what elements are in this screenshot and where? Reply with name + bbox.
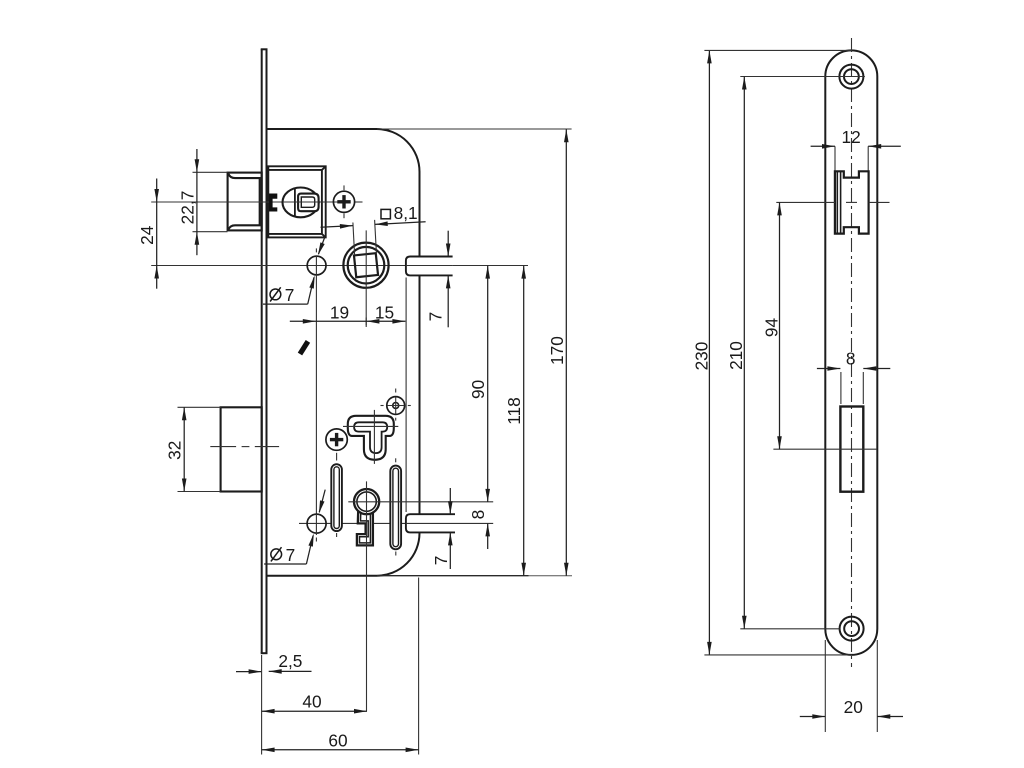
latch case box [268, 166, 325, 237]
latch axis line [151, 201, 350, 203]
210 extension line (bottom) [740, 628, 839, 630]
latch cam (circle with chord) [283, 188, 319, 218]
bottom tab (key guide) [406, 514, 455, 532]
svg-text:94: 94 [762, 318, 782, 338]
dimension 94 [779, 202, 781, 449]
pivot point U3 (circled dot, upper) [387, 397, 405, 415]
follower axis line y=265.5 [151, 265, 528, 267]
dimension 20 [824, 640, 826, 732]
dimension 2,5 [236, 671, 262, 673]
svg-text:170: 170 [547, 336, 567, 365]
leader into Ø7 bottom hole [319, 490, 325, 513]
bottom screw hole [840, 617, 864, 641]
latch bolt head (through faceplate) [228, 173, 262, 231]
spring pin (black slanted mark) [298, 340, 310, 355]
svg-text:7: 7 [286, 545, 296, 565]
svg-text:24: 24 [137, 225, 157, 245]
svg-text:20: 20 [844, 697, 863, 717]
spring clip (black C bracket) [269, 194, 277, 212]
dimension 19 / 15 [365, 318, 367, 328]
slot axis line [773, 448, 877, 450]
guide slot (left) [331, 464, 342, 531]
extension line plate bottom [704, 654, 852, 656]
svg-text:60: 60 [328, 731, 347, 751]
svg-text:90: 90 [468, 380, 488, 399]
dimension 230 [708, 50, 710, 655]
dimension 7 (bottom) [449, 488, 451, 514]
svg-text:2,5: 2,5 [278, 651, 302, 671]
dimension 90 [487, 266, 489, 502]
dimension 170 [565, 129, 567, 576]
dimension 60 [262, 749, 419, 751]
svg-text:7: 7 [431, 556, 451, 566]
faceplate (edge view, 2.5 thick) [261, 49, 268, 653]
svg-text:210: 210 [726, 341, 746, 370]
dimension 32 [178, 406, 221, 408]
label Ø7 (top) [270, 289, 281, 300]
guide slot (right) [390, 466, 401, 550]
svg-text:19: 19 [330, 302, 349, 322]
svg-text:15: 15 [375, 302, 394, 322]
wire: top edge extension to 170 dim [377, 128, 572, 130]
dimension 12 [834, 146, 836, 170]
wire: vertical line linking the two Ø7 holes / 19-dim extension [315, 256, 317, 515]
latch center mark [846, 201, 857, 203]
top tab (latch follower stop) [406, 257, 453, 276]
dimension 118 [523, 266, 525, 576]
leader into Ø7 top hole from box corner [319, 237, 326, 255]
screw U2 (phillips, middle-left) [326, 429, 347, 450]
svg-text:7: 7 [426, 312, 446, 322]
svg-text:8: 8 [468, 510, 488, 520]
wire: key-bit axis line y=523.4 [299, 522, 493, 524]
keyhole [357, 505, 373, 545]
dimension 40 [262, 710, 367, 712]
wire: vertical extension line x=406 between tabs [405, 278, 407, 513]
follower hub with square hole 8.1 [343, 243, 388, 288]
latch insert (front view) [835, 171, 869, 233]
T-shaped slot [348, 416, 394, 460]
210 extension line (top) [740, 76, 865, 78]
svg-text:7: 7 [285, 285, 295, 305]
svg-text:40: 40 [302, 692, 321, 712]
hole (Ø7, top) [307, 256, 326, 275]
plate vertical centerline (dash-dot) [851, 38, 853, 667]
extension lines bottom [261, 655, 263, 755]
svg-text:230: 230 [691, 342, 711, 371]
svg-text:12: 12 [841, 127, 860, 147]
follower vertical centerline [365, 230, 367, 325]
wire: bottom edge extension to 118/170 dims [377, 575, 529, 577]
extension line plate top [704, 49, 851, 51]
dimension 24 [156, 179, 158, 203]
cam follower bead [298, 194, 319, 212]
svg-text:22,7: 22,7 [177, 191, 197, 225]
label Ø7 (bottom) [271, 549, 282, 560]
deadbolt centerline (dash-dot) [210, 446, 279, 448]
faceplate plate outline (stadium) [825, 50, 877, 655]
dimension 8 (right view) [840, 372, 842, 404]
dimension 8 (left view) [487, 523, 489, 549]
dimension 7 (top) [447, 231, 449, 257]
latch axis line (94 extension) [776, 201, 835, 203]
svg-text:32: 32 [165, 441, 185, 460]
svg-text:118: 118 [504, 397, 524, 425]
top screw hole [839, 65, 863, 89]
svg-text:8,1: 8,1 [394, 203, 418, 223]
hole (Ø7, bottom) [307, 514, 326, 533]
deadbolt head [221, 407, 262, 491]
screw U1 (phillips, top) [333, 191, 354, 212]
deadbolt slot (front view) [840, 407, 863, 492]
dimension 22,7 [193, 171, 228, 173]
svg-text:8: 8 [846, 349, 856, 369]
keyhole centerlines [366, 481, 368, 711]
dimension □8,1 [353, 223, 355, 256]
T-slot centerlines [373, 410, 375, 464]
lock body outline [267, 129, 420, 576]
dimension 210 [743, 77, 745, 629]
